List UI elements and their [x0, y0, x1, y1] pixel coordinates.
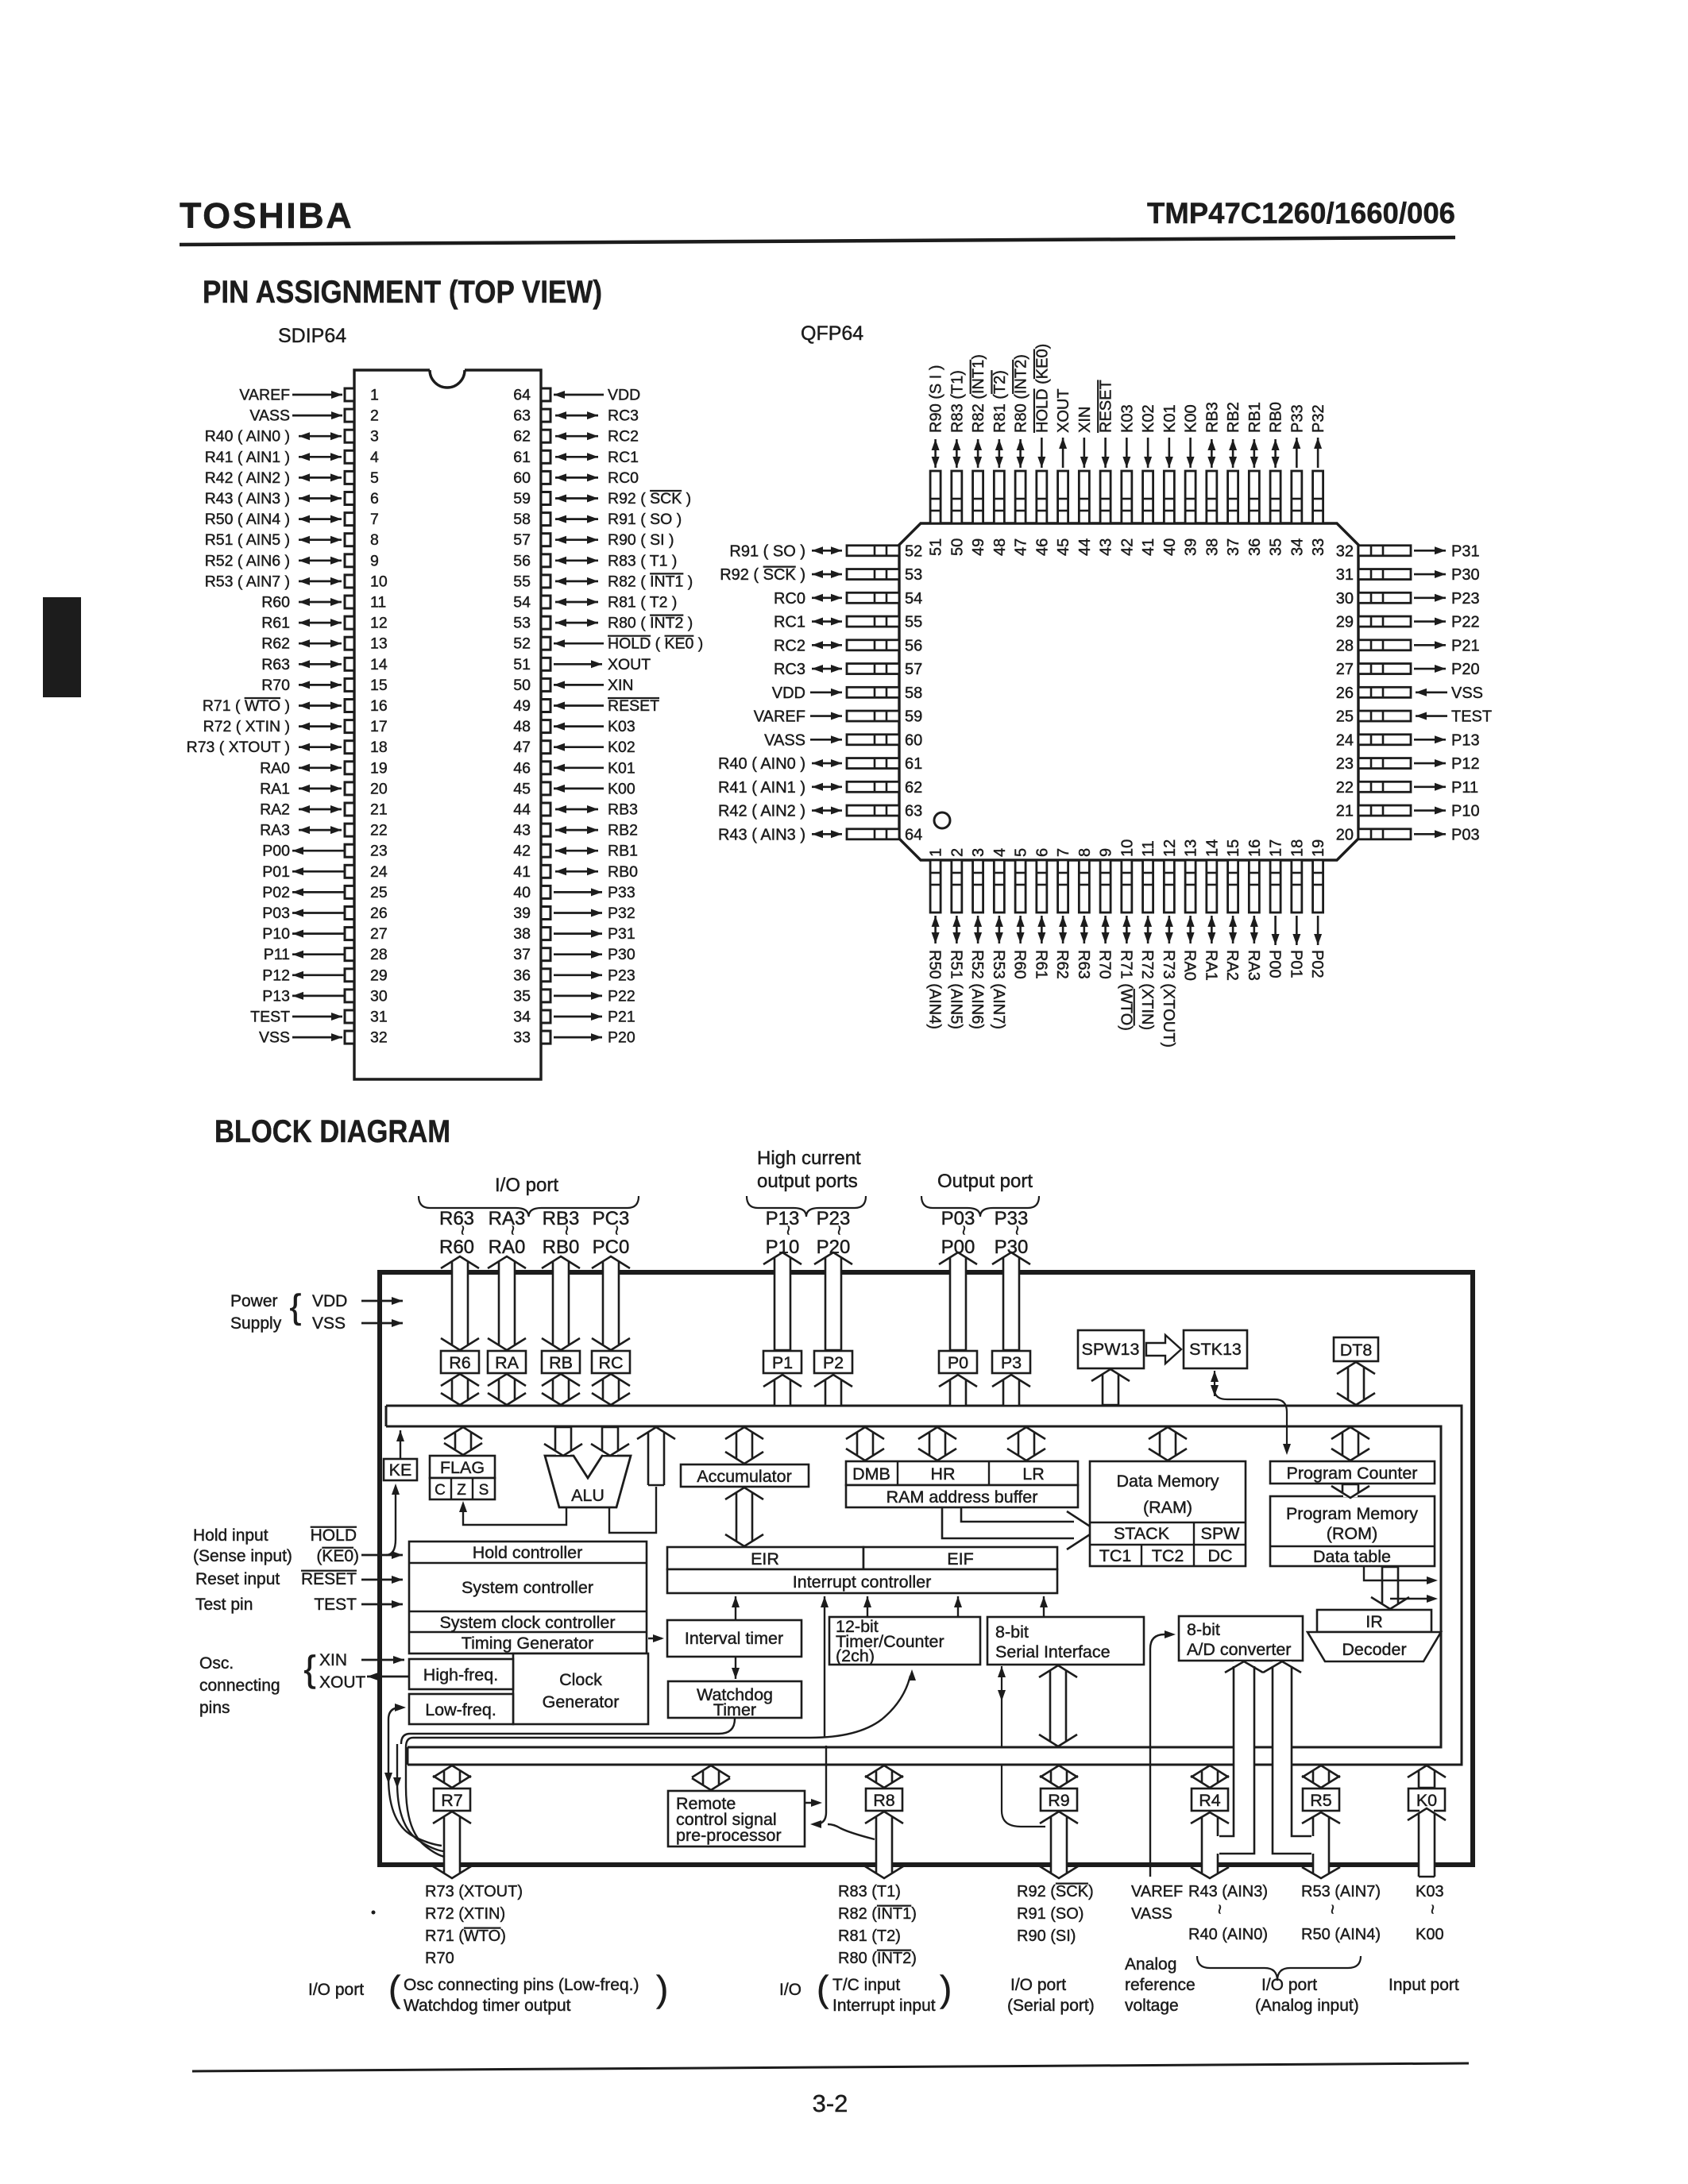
svg-text:R91 (SO): R91 (SO): [1017, 1905, 1083, 1923]
svg-text:34: 34: [513, 1009, 531, 1026]
SDIP pin 52 HOLD ( KE0 ): [513, 635, 703, 653]
SDIP pin 15 R70: [261, 677, 388, 694]
svg-text:62: 62: [905, 779, 922, 797]
column label RB3~RB0: [543, 1208, 580, 1258]
QFP pin 26 VSS (right): [1336, 685, 1483, 702]
svg-text:8: 8: [1076, 848, 1094, 857]
SDIP pin 11 R60: [261, 594, 386, 612]
svg-text:R40 ( AIN0 ): R40 ( AIN0 ): [718, 755, 805, 773]
pin arrow below port R7: [433, 1812, 471, 1878]
SDIP pin 64 VDD: [513, 387, 640, 404]
svg-text:24: 24: [1336, 731, 1354, 749]
svg-text:R81 (T2): R81 (T2): [838, 1927, 901, 1945]
svg-text:High current: High current: [757, 1148, 861, 1169]
QFP pin 48 R81 (T2) (top): [991, 370, 1009, 556]
QFP pin 24 P13 (right): [1336, 731, 1480, 749]
svg-text:20: 20: [1336, 826, 1354, 843]
QFP pin 63 R42 ( AIN2 ) (left): [718, 803, 922, 820]
svg-text:R91 ( SO ): R91 ( SO ): [729, 542, 805, 560]
port register R7: [434, 1788, 470, 1811]
svg-text:HOLD: HOLD: [311, 1526, 357, 1545]
arrow bus to SPW13: [1091, 1369, 1130, 1405]
svg-text:R72 (XTIN): R72 (XTIN): [1138, 950, 1156, 1030]
svg-text:System controller: System controller: [462, 1578, 593, 1597]
SDIP pin 26 P03: [262, 905, 387, 922]
svg-text:39: 39: [513, 905, 531, 922]
QFP pin 5 R60 (bottom): [1011, 848, 1030, 979]
SDIP pin 59 R92 ( SCK ): [513, 490, 691, 507]
svg-text:44: 44: [1076, 538, 1094, 556]
SDIP pin 56 R83 ( T1 ): [513, 552, 677, 569]
bus arrow port P1 to main bus: [763, 1375, 802, 1406]
svg-text:Power: Power: [230, 1292, 278, 1310]
svg-text:VASS: VASS: [764, 731, 805, 749]
svg-text:51: 51: [928, 538, 945, 556]
SDIP pin 38 P31: [513, 925, 635, 943]
SDIP pin 3 R40 ( AIN0 ): [205, 428, 379, 446]
svg-text:RB2: RB2: [608, 822, 638, 839]
column label PC3~PC0: [593, 1208, 630, 1258]
svg-text:~: ~: [954, 1225, 974, 1236]
svg-text:(RAM): (RAM): [1143, 1498, 1192, 1517]
SDIP pin 60 RC0: [513, 469, 639, 487]
svg-text:R50 (AIN4): R50 (AIN4): [926, 950, 944, 1029]
svg-text:P10: P10: [262, 925, 290, 943]
SDIP pin 34 P21: [513, 1009, 635, 1026]
svg-text:R82 (INT1): R82 (INT1): [970, 354, 987, 433]
wire HOLD into box: [361, 1551, 403, 1559]
svg-text:20: 20: [370, 780, 388, 797]
svg-text:ALU: ALU: [571, 1486, 605, 1505]
svg-text:Input port: Input port: [1389, 1976, 1459, 1994]
Program Counter: [1270, 1461, 1435, 1484]
svg-text:60: 60: [905, 731, 922, 749]
svg-text:VAREF: VAREF: [754, 708, 805, 726]
svg-text:33: 33: [513, 1029, 531, 1047]
QFP pin 6 R61 (bottom): [1032, 848, 1051, 979]
QFP pin 28 P21 (right): [1336, 637, 1480, 654]
svg-text:K03: K03: [1118, 404, 1136, 433]
port register R5: [1303, 1788, 1339, 1811]
svg-text:FLAG: FLAG: [440, 1458, 485, 1477]
svg-text:R50 ( AIN4 ): R50 ( AIN4 ): [205, 511, 290, 528]
QFP pin 31 P30 (right): [1336, 566, 1480, 584]
bus arrow port R6 to main bus: [441, 1374, 479, 1405]
svg-text:R60: R60: [1011, 950, 1029, 979]
svg-text:44: 44: [513, 801, 531, 819]
svg-text:RA0: RA0: [1181, 950, 1199, 981]
svg-text:R43 ( AIN3 ): R43 ( AIN3 ): [718, 826, 805, 843]
label: Output port: [921, 1171, 1039, 1217]
svg-text:21: 21: [1336, 803, 1354, 820]
QFP pin 10 R71 (WTO) (bottom): [1117, 839, 1136, 1031]
svg-text:R40 (AIN0): R40 (AIN0): [1188, 1926, 1268, 1943]
svg-text:46: 46: [1033, 538, 1051, 556]
svg-text:R62: R62: [261, 635, 290, 653]
wire TEST into box: [361, 1600, 403, 1608]
svg-text:15: 15: [370, 677, 388, 694]
svg-text:61: 61: [513, 449, 531, 466]
svg-text:8-bit: 8-bit: [1187, 1620, 1220, 1639]
Remote control signal pre-processor: [668, 1791, 805, 1846]
svg-text:50: 50: [948, 538, 966, 556]
svg-text:EIF: EIF: [947, 1549, 973, 1569]
svg-text:2: 2: [948, 848, 966, 857]
arrow DT8 to bus: [1337, 1362, 1375, 1405]
svg-text:48: 48: [513, 718, 531, 735]
svg-text:Clock: Clock: [559, 1670, 602, 1689]
QFP pin 39 K00 (top): [1183, 404, 1200, 556]
SDIP pin 47 K02: [513, 739, 635, 756]
SDIP pin 57 R90 ( SI ): [513, 531, 674, 549]
wire curve into 12-bit Timer/Counter bottom: [810, 1669, 916, 1738]
wire VAREF/VASS line to A/D converter: [1150, 1630, 1176, 1877]
svg-text:RA3: RA3: [260, 822, 290, 839]
QFP pin 62 R41 ( AIN1 ) (left): [718, 779, 922, 797]
svg-text:RB0: RB0: [543, 1237, 580, 1258]
pin arrow above port P0: [939, 1252, 977, 1350]
QFP pin 64 R43 ( AIN3 ) (left): [718, 826, 922, 843]
QFP pin 55 RC1 (left): [774, 614, 922, 631]
svg-text:17: 17: [1268, 839, 1285, 857]
svg-text:Serial Interface: Serial Interface: [995, 1642, 1111, 1661]
SDIP pin 1 VAREF: [239, 387, 378, 404]
label QFP64: [801, 322, 863, 345]
bus arrow to DMB: [846, 1427, 884, 1461]
arrow port K0 to bus: [1408, 1765, 1446, 1788]
svg-text:38: 38: [1203, 538, 1221, 556]
svg-text:11: 11: [370, 594, 386, 612]
svg-text:VAREF: VAREF: [1131, 1883, 1183, 1900]
svg-text:P30: P30: [1451, 566, 1480, 584]
svg-text:RC1: RC1: [774, 614, 805, 631]
QFP pin 42 K03 (top): [1118, 404, 1136, 556]
wire VDD into box: [361, 1297, 403, 1305]
svg-text:RC2: RC2: [608, 428, 639, 446]
pin arrow below port K0 (input): [1408, 1808, 1446, 1877]
QFP pin 61 R40 ( AIN0 ) (left): [718, 755, 922, 773]
svg-text:47: 47: [1013, 538, 1030, 556]
svg-text:~: ~: [607, 1225, 627, 1236]
svg-text:R72 (XTIN): R72 (XTIN): [425, 1905, 505, 1923]
SDIP64 package body with pin-1 notch: [354, 370, 541, 1079]
svg-text:30: 30: [370, 987, 388, 1005]
svg-text:K0: K0: [1416, 1791, 1437, 1810]
svg-text:K01: K01: [1161, 404, 1179, 433]
column label P33~P30: [995, 1208, 1029, 1258]
svg-text:RB0: RB0: [1268, 402, 1285, 433]
svg-text:TEST: TEST: [250, 1009, 290, 1026]
QFP pin 2 R51 (AIN5) (bottom): [947, 848, 966, 1029]
wire 12-bit Timer/Counter to Interrupt controller: [954, 1596, 962, 1616]
SDIP pin 32 VSS: [259, 1029, 388, 1047]
svg-text:R81 ( T2 ): R81 ( T2 ): [608, 594, 677, 612]
SDIP pin 17 R72 ( XTIN ): [203, 718, 388, 735]
wire XIN into box: [361, 1656, 404, 1664]
bus arrow into ALU left input: [544, 1427, 582, 1456]
ALU: [545, 1456, 631, 1507]
QFP pin 38 RB3 (top): [1203, 402, 1221, 556]
wire HOLD input to KE: [386, 1484, 400, 1555]
svg-text:64: 64: [513, 387, 531, 404]
QFP pin 17 P00 (bottom): [1266, 839, 1285, 978]
8-bit Serial Interface: [987, 1617, 1144, 1665]
svg-text:R73 ( XTOUT ): R73 ( XTOUT ): [187, 739, 290, 756]
register FLAG with C Z S: [430, 1456, 495, 1499]
svg-text:5: 5: [370, 469, 379, 487]
svg-text:R52 ( AIN6 ): R52 ( AIN6 ): [205, 552, 290, 569]
pin group label R92 R91 R90: [1017, 1883, 1094, 1945]
svg-text:TEST: TEST: [1451, 708, 1492, 726]
SDIP pin 12 R61: [261, 615, 387, 632]
svg-text:RA0: RA0: [260, 759, 290, 777]
svg-text:32: 32: [370, 1029, 388, 1047]
svg-text:10: 10: [370, 573, 388, 590]
svg-text:9: 9: [370, 552, 379, 569]
svg-text:TMP47C1260/1660/006: TMP47C1260/1660/006: [1147, 197, 1455, 230]
SDIP pin 54 R81 ( T2 ): [513, 594, 677, 612]
svg-text:RA0: RA0: [489, 1237, 526, 1258]
svg-text:VAREF: VAREF: [239, 387, 290, 404]
Decoder: [1308, 1632, 1441, 1661]
QFP pin 45 XOUT (top): [1055, 388, 1072, 556]
svg-text:57: 57: [513, 531, 531, 549]
svg-text:37: 37: [1225, 538, 1242, 556]
header: TOSHIBA logo text: [180, 195, 353, 236]
pin arrow above port RA: [488, 1256, 526, 1350]
svg-text:53: 53: [513, 615, 531, 632]
SDIP pin 5 R42 ( AIN2 ): [205, 469, 379, 487]
svg-text:R53 ( AIN7 ): R53 ( AIN7 ): [205, 573, 290, 590]
svg-text:14: 14: [370, 656, 388, 673]
svg-text:(: (: [817, 1968, 829, 2009]
wire FLAG input from ALU: [459, 1501, 566, 1525]
svg-text:6: 6: [370, 490, 379, 507]
wire R9 serial link: [1002, 1765, 1045, 1827]
SDIP pin 41 RB0: [513, 863, 638, 881]
svg-text:54: 54: [905, 590, 922, 608]
svg-text:P20: P20: [608, 1029, 635, 1047]
svg-text:P23: P23: [1451, 590, 1480, 608]
QFP pin 58 VDD (left): [772, 685, 922, 702]
svg-text:30: 30: [1336, 590, 1354, 608]
hollow arrow SPW13 to STK13: [1146, 1335, 1181, 1364]
svg-text:45: 45: [513, 780, 531, 797]
label: Power Supply VDD VSS: [230, 1287, 347, 1333]
svg-text:R9: R9: [1048, 1791, 1069, 1810]
svg-text:R40 ( AIN0 ): R40 ( AIN0 ): [205, 428, 290, 446]
svg-text:P03: P03: [1451, 826, 1480, 843]
svg-text:Interval timer: Interval timer: [685, 1629, 783, 1648]
svg-text:Analog: Analog: [1125, 1955, 1176, 1974]
svg-text:Timer: Timer: [713, 1700, 756, 1719]
bus arrow to Data Memory: [1149, 1427, 1187, 1461]
svg-text:56: 56: [905, 637, 922, 654]
port register RC: [592, 1351, 630, 1373]
SDIP pin 25 P02: [262, 884, 388, 901]
svg-text:P03: P03: [262, 905, 290, 922]
svg-text:18: 18: [1288, 839, 1306, 857]
svg-text:RC3: RC3: [608, 407, 639, 425]
svg-text:R41 ( AIN1 ): R41 ( AIN1 ): [718, 779, 805, 797]
port register P0: [939, 1351, 977, 1373]
IR register: [1317, 1610, 1431, 1632]
svg-text:R90 ( SI ): R90 ( SI ): [608, 531, 674, 549]
SDIP pin 62 RC2: [513, 428, 639, 446]
QFP pin 16 RA3 (bottom): [1245, 839, 1264, 981]
svg-text:R83 ( T1 ): R83 ( T1 ): [608, 552, 677, 569]
svg-text:Generator: Generator: [543, 1692, 620, 1711]
svg-text:R61: R61: [1032, 950, 1049, 979]
svg-text:High-freq.: High-freq.: [423, 1665, 498, 1684]
svg-text:P23: P23: [608, 967, 635, 984]
QFP pin 25 TEST (right): [1336, 708, 1492, 726]
svg-text:Output port: Output port: [937, 1171, 1033, 1192]
QFP64 pin-1 index circle: [934, 812, 950, 828]
SDIP pin 50 XIN: [513, 677, 633, 694]
QFP pin 23 P12 (right): [1336, 755, 1480, 773]
SDIP pin 35 P22: [513, 987, 635, 1005]
svg-text:53: 53: [905, 566, 922, 584]
label: Reset input RESET: [195, 1570, 357, 1588]
SDIP pin 49 RESET: [513, 697, 659, 715]
svg-text:RB3: RB3: [608, 801, 638, 819]
Interval timer: [667, 1620, 802, 1657]
svg-text:19: 19: [1310, 839, 1327, 857]
QFP pin 50 R83 (T1) (top): [948, 370, 966, 556]
svg-text:16: 16: [370, 697, 388, 715]
svg-text:15: 15: [1225, 839, 1242, 857]
QFP pin 18 P01 (bottom): [1287, 839, 1306, 978]
svg-text:42: 42: [513, 843, 531, 860]
block diagram outer box: [380, 1272, 1473, 1865]
svg-text:RB1: RB1: [1246, 402, 1264, 433]
brace analog input group: [1197, 1956, 1361, 1981]
QFP pin 19 P02 (bottom): [1308, 839, 1327, 978]
svg-text:8: 8: [370, 531, 379, 549]
SDIP pin 24 P01: [262, 863, 388, 881]
svg-text:output ports: output ports: [757, 1171, 858, 1192]
svg-text:P20: P20: [1451, 661, 1480, 678]
RAM address buffer: [846, 1485, 1078, 1507]
bus arrow to port R8: [865, 1765, 903, 1788]
svg-text:51: 51: [513, 656, 531, 673]
QFP pin 57 RC3 (left): [774, 661, 922, 678]
QFP pin 56 RC2 (left): [774, 637, 922, 654]
QFP pin 8 R63 (bottom): [1075, 848, 1094, 979]
svg-text:RB: RB: [549, 1353, 573, 1372]
svg-text:49: 49: [513, 697, 531, 715]
svg-text:RB1: RB1: [608, 843, 638, 860]
svg-text:49: 49: [970, 538, 987, 556]
svg-text:SPW13: SPW13: [1082, 1340, 1140, 1359]
svg-text:LR: LR: [1022, 1464, 1044, 1484]
SDIP pin 30 P13: [262, 987, 388, 1005]
svg-text:VASS: VASS: [1131, 1905, 1172, 1923]
svg-text:R83 (T1): R83 (T1): [948, 370, 966, 433]
svg-text:3-2: 3-2: [813, 2089, 848, 2117]
wire RESET into box: [361, 1576, 403, 1584]
svg-text:System clock controller: System clock controller: [439, 1613, 615, 1632]
caption: Input port: [1389, 1976, 1459, 1994]
svg-text:4: 4: [370, 449, 379, 466]
svg-text:P02: P02: [1308, 950, 1326, 978]
SDIP pin 44 RB3: [513, 801, 638, 819]
QFP pin 47 R80 (INT2) (top): [1013, 354, 1030, 556]
svg-text:P32: P32: [608, 905, 635, 922]
svg-text:RB2: RB2: [1225, 402, 1242, 433]
SDIP pin 48 K03: [513, 718, 635, 735]
svg-text:6: 6: [1033, 848, 1051, 857]
A/D converter analog channel to R4: [1218, 1661, 1263, 1854]
port register R6: [441, 1351, 479, 1373]
svg-text:R81 (T2): R81 (T2): [991, 370, 1009, 433]
wire KE to bus: [396, 1430, 404, 1458]
svg-text:P10: P10: [1451, 803, 1480, 820]
svg-text:(ROM): (ROM): [1327, 1524, 1377, 1543]
QFP pin 3 R52 (AIN6) (bottom): [968, 848, 987, 1029]
svg-text:23: 23: [370, 843, 388, 860]
svg-text:3: 3: [370, 428, 379, 446]
svg-text:R60: R60: [439, 1237, 474, 1258]
bus arrow port RC to main bus: [592, 1374, 630, 1405]
svg-text:R6: R6: [449, 1353, 471, 1372]
bus arrow port P0 to main bus: [939, 1375, 977, 1406]
svg-text:22: 22: [370, 822, 388, 839]
svg-text:RA2: RA2: [1223, 950, 1241, 981]
svg-text:R42 ( AIN2 ): R42 ( AIN2 ): [718, 803, 805, 820]
QFP pin 33 P32 (top): [1310, 404, 1327, 556]
QFP pin 29 P22 (right): [1336, 614, 1480, 631]
svg-text:RB0: RB0: [608, 863, 638, 881]
svg-text:40: 40: [1161, 538, 1179, 556]
svg-text:12: 12: [1161, 839, 1179, 857]
svg-text:41: 41: [513, 863, 531, 881]
svg-text:R61: R61: [261, 615, 290, 632]
svg-text:39: 39: [1183, 538, 1200, 556]
svg-text:11: 11: [1140, 840, 1157, 857]
svg-text:R90 (S I ): R90 (S I ): [928, 365, 945, 433]
DMB HR LR registers: [846, 1461, 1078, 1485]
section marker black tab: [43, 597, 81, 697]
svg-text:I/O port: I/O port: [1261, 1976, 1317, 1994]
svg-text:I/O port: I/O port: [308, 1981, 364, 1999]
svg-text:46: 46: [513, 759, 531, 777]
svg-text:R91 ( SO ): R91 ( SO ): [608, 511, 682, 528]
svg-text:R42 ( AIN2 ): R42 ( AIN2 ): [205, 469, 290, 487]
svg-text:K01: K01: [608, 759, 635, 777]
svg-text:): ): [656, 1968, 668, 2009]
label: I/O port group: [419, 1175, 639, 1217]
svg-text:Interrupt input: Interrupt input: [832, 1997, 936, 2015]
svg-text:voltage: voltage: [1125, 1997, 1179, 2015]
Watchdog Timer: [668, 1681, 802, 1719]
QFP pin 13 RA0 (bottom): [1181, 839, 1200, 981]
svg-text:XOUT: XOUT: [608, 656, 651, 673]
QFP pin 60 VASS (left): [764, 731, 922, 749]
svg-text:P1: P1: [772, 1353, 793, 1372]
svg-text:34: 34: [1288, 538, 1306, 556]
svg-text:13: 13: [370, 635, 388, 653]
svg-text:TC2: TC2: [1152, 1546, 1184, 1565]
svg-text:RESET: RESET: [608, 697, 659, 715]
wire ALU output loop: [609, 1487, 656, 1533]
wire serial interface thin arrow: [998, 1666, 1006, 1746]
svg-text:RC2: RC2: [774, 637, 805, 654]
svg-text:(Analog input): (Analog input): [1255, 1997, 1359, 2015]
svg-text:R70: R70: [261, 677, 290, 694]
svg-text:52: 52: [513, 635, 531, 653]
